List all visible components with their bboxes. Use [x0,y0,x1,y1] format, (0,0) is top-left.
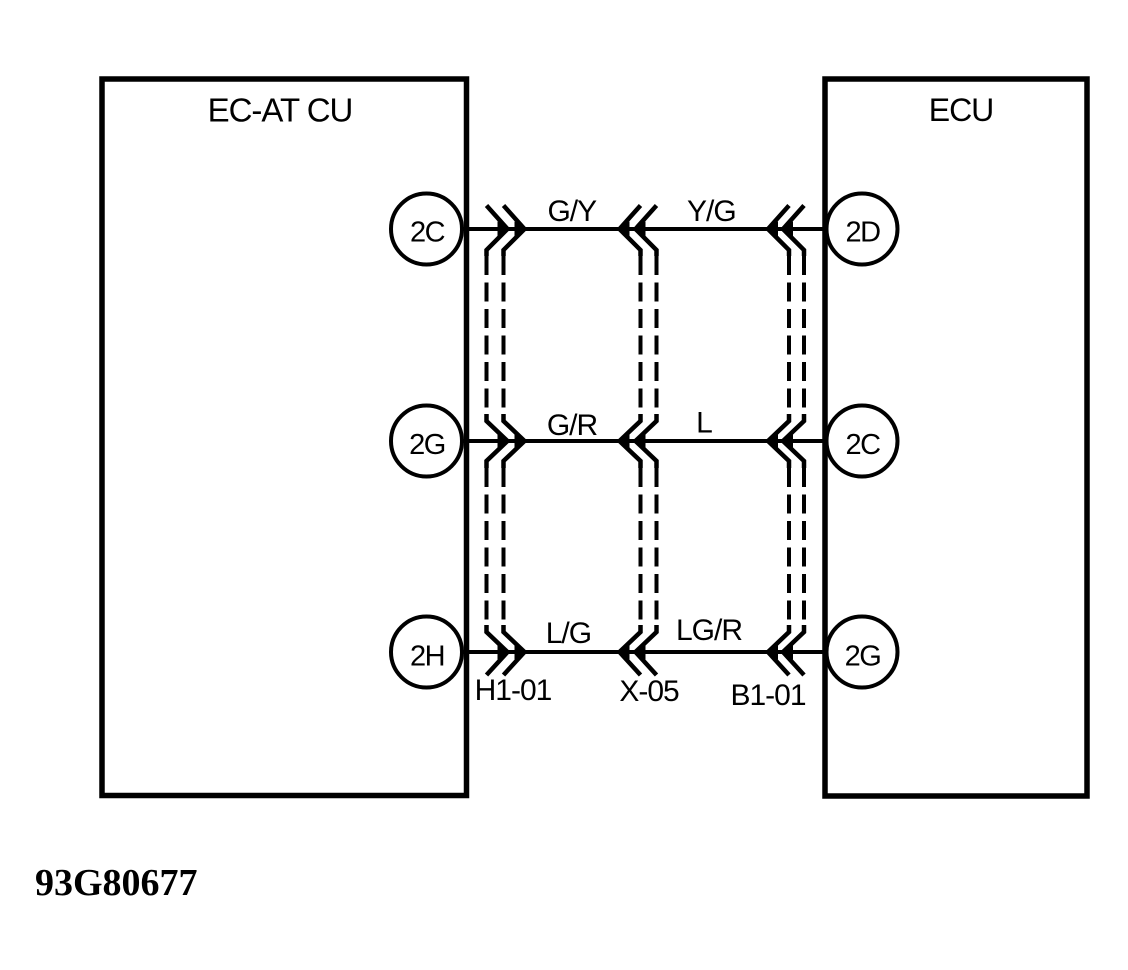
box ECU [825,79,1087,796]
svg-text:ECU: ECU [929,92,994,128]
svg-text:G/Y: G/Y [547,195,597,228]
svg-text:93G80677: 93G80677 [35,862,198,904]
pin 2G (ECU) [827,617,898,688]
svg-text:H1-01: H1-01 [475,674,552,707]
pin 2D (ECU) [827,194,898,265]
svg-text:LG/R: LG/R [676,614,742,647]
box EC-AT CU [102,79,467,796]
svg-text:EC-AT CU: EC-AT CU [208,92,353,129]
wire 2H to 2G (L/G - LG/R) [463,650,826,654]
connector X-05 [615,206,657,676]
svg-text:2G: 2G [409,429,445,461]
pin 2G (EC-AT CU) [391,406,462,477]
svg-text:2C: 2C [845,429,880,461]
svg-text:2H: 2H [410,641,444,673]
pin 2C (EC-AT CU) [391,194,462,265]
svg-text:Y/G: Y/G [687,195,736,228]
svg-text:B1-01: B1-01 [730,679,805,712]
pin 2H (EC-AT CU) [391,617,462,688]
svg-text:X-05: X-05 [619,675,679,708]
svg-text:L: L [696,407,712,440]
svg-text:G/R: G/R [547,409,598,442]
connector H1-01 [487,206,530,676]
svg-text:2G: 2G [845,641,881,673]
svg-text:2C: 2C [410,217,445,249]
svg-text:2D: 2D [845,217,880,249]
wire 2G to 2C (G/R - L) [463,439,826,443]
svg-text:L/G: L/G [546,617,591,650]
pin 2C (ECU) [827,406,898,477]
connector B1-01 [764,206,805,676]
wire 2C to 2D (G/Y - Y/G) [463,227,826,231]
